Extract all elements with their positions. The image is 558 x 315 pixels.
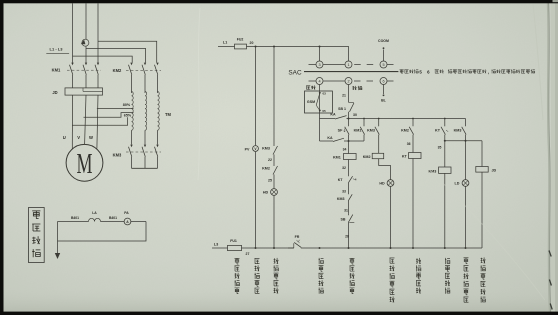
- relay JD: [476, 167, 488, 173]
- phase line 3: [97, 3, 99, 63]
- contact KM1 aux: [354, 119, 365, 139]
- svg-text:1: 1: [347, 63, 349, 67]
- svg-text:31: 31: [344, 209, 348, 213]
- svg-text:V: V: [77, 135, 80, 140]
- svg-text:GSM: GSM: [307, 100, 315, 104]
- column function labels: [235, 258, 240, 293]
- fuse FU1: [228, 245, 242, 250]
- stop-indication column: [262, 47, 277, 189]
- motor M: [66, 144, 103, 181]
- svg-text:KM3: KM3: [337, 197, 345, 201]
- current measurement label box: [29, 208, 45, 263]
- svg-text:FR: FR: [295, 235, 300, 239]
- branch wire to autotransformer top: [98, 41, 157, 62]
- svg-text:5: 5: [382, 63, 384, 67]
- svg-text:33: 33: [342, 190, 346, 194]
- svg-text:KM3: KM3: [262, 146, 270, 150]
- svg-text:KA: KA: [330, 112, 336, 116]
- control top bus: [247, 47, 349, 62]
- voltmeter column drop: [255, 47, 257, 146]
- contact KT delayed: [435, 119, 448, 139]
- svg-text:PV: PV: [245, 147, 250, 151]
- phase line 2: [85, 3, 87, 39]
- svg-text:KM2: KM2: [113, 68, 122, 73]
- svg-text:KM2: KM2: [401, 129, 409, 133]
- svg-text:B401: B401: [109, 216, 117, 220]
- auto-start device GSM: [305, 85, 333, 119]
- svg-text:KM3: KM3: [454, 129, 462, 133]
- thermal contact FR: [288, 235, 301, 248]
- photo border bottom: [0, 312, 558, 315]
- interlock contact KM3 NC: [337, 194, 352, 214]
- start button SF: [338, 119, 349, 142]
- svg-text:03: 03: [323, 92, 327, 96]
- svg-text:JD: JD: [52, 90, 57, 95]
- svg-text:80%: 80%: [123, 103, 131, 107]
- svg-text:LA: LA: [92, 211, 97, 215]
- paper creases: [430, 170, 545, 300]
- contactor KM1 main contacts: [52, 63, 101, 88]
- svg-text:KA: KA: [327, 136, 333, 140]
- svg-text:KM2: KM2: [363, 155, 371, 159]
- svg-text:LD: LD: [455, 182, 460, 186]
- svg-text:HD: HD: [263, 191, 269, 195]
- motor leads: [71, 95, 73, 149]
- svg-text:21: 21: [342, 93, 346, 97]
- wire to coil KM1: [348, 141, 350, 154]
- svg-text:FU1: FU1: [230, 239, 237, 243]
- lamp HD run: [379, 180, 394, 248]
- paper right edge crease: [533, 0, 558, 315]
- photo border top: [0, 0, 558, 3]
- stop button SB2: [341, 214, 355, 248]
- svg-text:,: ,: [488, 69, 489, 74]
- branch wire mid: [86, 49, 146, 63]
- svg-text:3: 3: [318, 63, 320, 67]
- current transformer LA: [89, 218, 101, 221]
- svg-text:W: W: [89, 135, 93, 140]
- svg-text:L1 - L3: L1 - L3: [50, 47, 64, 52]
- svg-text:SF: SF: [338, 129, 343, 133]
- photo border left: [0, 0, 4, 315]
- contactor KM3 star contacts: [113, 130, 161, 168]
- svg-text:32: 32: [342, 166, 346, 170]
- svg-text:TM: TM: [165, 112, 172, 117]
- svg-text:65%: 65%: [124, 114, 132, 118]
- thermal element JD: [52, 88, 102, 95]
- svg-text:KM3: KM3: [113, 153, 122, 158]
- svg-text:U: U: [63, 135, 66, 140]
- svg-text:HD: HD: [379, 182, 385, 186]
- branch to JD relay: [465, 139, 467, 141]
- measurement loop return wire: [58, 222, 147, 242]
- relay contact KA and node 30 row: [320, 112, 466, 119]
- svg-text:36: 36: [407, 142, 411, 146]
- annotation about switch contacts 5 6: [400, 69, 535, 74]
- svg-text:SB: SB: [341, 217, 346, 221]
- svg-text:KT: KT: [435, 129, 441, 133]
- tap 80%: [97, 107, 134, 109]
- svg-text:27: 27: [246, 252, 250, 256]
- svg-text:L1: L1: [223, 40, 227, 44]
- tap 65%: [84, 113, 134, 118]
- manual label and button SB1: [338, 85, 362, 119]
- svg-text:L3: L3: [214, 243, 218, 247]
- coil KM2: [378, 139, 380, 154]
- lamp HD stop: [263, 189, 278, 248]
- CT B401 wire: [58, 221, 89, 223]
- svg-text:SAC: SAC: [288, 70, 302, 77]
- coil KM1: [344, 154, 357, 160]
- svg-text:34: 34: [343, 148, 347, 152]
- svg-text:20: 20: [250, 41, 254, 45]
- svg-text:COOM: COOM: [378, 39, 389, 43]
- contact KM3 aux a: [367, 119, 379, 139]
- svg-text:35: 35: [438, 145, 442, 149]
- svg-text:KT: KT: [338, 178, 344, 182]
- fuse FU2: [235, 44, 247, 49]
- svg-text:KM1: KM1: [333, 156, 341, 160]
- sensor circle on phase 2: [82, 39, 89, 46]
- wire to run lamp: [379, 159, 391, 180]
- svg-text:M: M: [77, 148, 93, 180]
- coil KM3: [444, 139, 446, 168]
- svg-text:05: 05: [322, 109, 326, 113]
- BL terminal: [383, 85, 385, 94]
- svg-text:30: 30: [353, 113, 357, 117]
- svg-text:KM1: KM1: [52, 68, 61, 73]
- holding contact KA: [320, 119, 350, 143]
- svg-text:PA: PA: [124, 211, 129, 215]
- phase line 1: [72, 3, 74, 63]
- voltmeter PV: [253, 146, 259, 152]
- svg-text:B401: B401: [71, 216, 79, 220]
- svg-text:4: 4: [318, 79, 320, 83]
- svg-text:SB 1: SB 1: [338, 107, 346, 111]
- svg-text:KM2: KM2: [262, 167, 270, 171]
- svg-text:22: 22: [268, 158, 272, 162]
- svg-text:KT: KT: [402, 155, 408, 159]
- tap line phase U: [72, 117, 128, 125]
- svg-text:2: 2: [347, 79, 349, 83]
- measurement ground arrow: [57, 222, 59, 254]
- svg-text:KM1: KM1: [354, 129, 362, 133]
- svg-text:KM3: KM3: [367, 129, 375, 133]
- branch wire low: [73, 56, 133, 62]
- selector switch SAC: [288, 47, 398, 85]
- svg-text:6: 6: [382, 79, 384, 83]
- svg-text:FU2: FU2: [237, 38, 244, 42]
- contact KM2 aux: [401, 119, 413, 139]
- bus junctions: [255, 247, 257, 249]
- svg-text:JD: JD: [492, 169, 497, 173]
- ammeter PA: [124, 218, 131, 225]
- contact KM3 aux b: [454, 119, 466, 139]
- contactor KM2 contacts: [113, 63, 161, 93]
- svg-text:28: 28: [345, 235, 349, 239]
- lamp LD: [455, 141, 469, 248]
- autotransformer TM coils: [132, 92, 172, 131]
- coil KT: [412, 139, 414, 153]
- svg-text:25: 25: [268, 178, 272, 182]
- delayed contact KT NC: [338, 176, 357, 194]
